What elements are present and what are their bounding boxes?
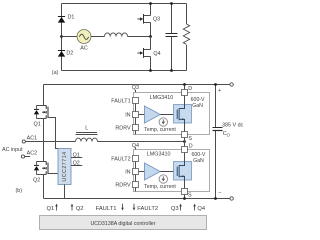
pin RDRV (top block) — [115, 125, 138, 132]
capacitor (a) — [166, 34, 178, 37]
svg-text:AC2: AC2 — [27, 150, 37, 156]
node: + output terminal — [218, 83, 233, 94]
node: AC mid node (a) — [60, 35, 63, 38]
svg-text:D: D — [188, 86, 192, 92]
wire: circuit (a) bottom rail — [62, 70, 187, 72]
inductor (a) — [105, 33, 128, 37]
pin D (top block) — [182, 86, 193, 96]
wire: (b) top rail — [44, 84, 231, 86]
svg-text:Q2: Q2 — [33, 178, 40, 184]
wire: GaN box to S pin — [184, 123, 186, 132]
wire: inductor to switch node (a) — [128, 36, 151, 38]
pin FAULT1 — [111, 98, 138, 105]
wire: AC1 to inductor — [25, 141, 75, 143]
svg-text:IN: IN — [125, 113, 130, 119]
wire: FAULT1 to IN — [135, 104, 137, 112]
diode D2 — [58, 51, 74, 57]
svg-text:Q3: Q3 — [153, 16, 160, 22]
signal FAULT1 to controller — [96, 204, 124, 213]
wire: Q1 gate to driver — [48, 118, 58, 149]
wire: UCC27714 Q1 input stub — [71, 153, 82, 159]
AC source — [77, 30, 91, 52]
node AC1 terminal — [22, 136, 37, 144]
svg-text:Q2: Q2 — [76, 206, 84, 212]
pin RDRV (bottom block) — [115, 182, 138, 189]
pin S (top block) — [182, 132, 193, 142]
node: Q4 source at rail — [149, 69, 152, 72]
node: - output terminal — [218, 190, 233, 200]
svg-text:Q1: Q1 — [47, 206, 55, 212]
svg-text:Q4: Q4 — [197, 206, 206, 212]
wire: UCC27714 bottom to rail — [64, 185, 66, 199]
wire: RDRV to block bottom — [135, 131, 137, 135]
diode D1 — [58, 14, 75, 22]
wire: Q3 source to switch node — [150, 23, 152, 37]
node: Q3 signal label — [132, 85, 139, 97]
svg-text:FAULT1: FAULT1 — [111, 99, 130, 105]
svg-text:UCD3138A digital controller: UCD3138A digital controller — [90, 221, 155, 227]
node: switch node (a) — [149, 35, 152, 38]
svg-text:Q4: Q4 — [153, 51, 160, 57]
svg-text:385 V dc: 385 V dc — [222, 122, 244, 128]
svg-text:UCC27714: UCC27714 — [62, 151, 68, 181]
wire: UCC27714 Q2 input stub — [71, 161, 82, 167]
svg-text:(a): (a) — [52, 70, 59, 76]
block U1: top LMG3410 module — [134, 93, 210, 135]
node: cap top (a) — [170, 2, 173, 5]
svg-text:Q3: Q3 — [171, 206, 179, 212]
node: Q3 drain at rail — [149, 2, 152, 5]
wire: capacitor branch (a) — [171, 4, 173, 71]
svg-text:L: L — [85, 126, 88, 132]
wire: D pin to GaN box — [184, 96, 186, 105]
node AC2 terminal — [21, 150, 37, 158]
svg-text:GaN: GaN — [192, 103, 203, 109]
transistor Q2 with body diode — [33, 162, 48, 184]
svg-text:FAULT2: FAULT2 — [111, 157, 130, 163]
svg-text:AC: AC — [80, 46, 88, 52]
wire: S pin to bottom rail — [184, 195, 186, 199]
wire: IN pin to driver triangle — [139, 114, 145, 116]
wire: Q1 source down through AC1 cross to Q2 drain — [43, 119, 45, 162]
wire: AC source to inductor (a) — [91, 36, 105, 38]
wire: circuit (a) left vertical — [61, 4, 63, 71]
signal FAULT2 to controller — [133, 204, 158, 213]
svg-text:FAULT1: FAULT1 — [96, 206, 117, 212]
wire: (b) bottom rail — [44, 198, 231, 200]
svg-text:Temp, current: Temp, current — [144, 184, 176, 190]
buffer: gate drive triangle (top) — [145, 106, 161, 123]
wire: buffer to GaN gate (bottom) — [160, 171, 177, 173]
wire: AC2 stub — [25, 156, 31, 158]
wire: inductor to GaN switch node — [98, 141, 185, 143]
svg-text:RDRV: RDRV — [115, 126, 131, 132]
signal Q4 to GaN — [193, 204, 206, 213]
svg-text:LMG3410: LMG3410 — [147, 151, 171, 157]
svg-text:Q1: Q1 — [73, 153, 80, 159]
pin IN (top block) — [125, 112, 138, 119]
GaN FET box (top) — [174, 105, 192, 124]
wire: Q2 source to bottom rail — [43, 175, 45, 199]
svg-text:FAULT2: FAULT2 — [137, 206, 158, 212]
svg-text:AC input: AC input — [2, 147, 23, 153]
resistor (load, a) — [183, 24, 189, 44]
svg-text:IN: IN — [125, 170, 130, 176]
svg-text:RDRV: RDRV — [115, 183, 131, 189]
svg-text:GaN: GaN — [193, 158, 204, 164]
GaN FET box (bottom) — [174, 162, 192, 181]
svg-text:AC1: AC1 — [27, 136, 37, 142]
controller UCD3138A — [40, 216, 207, 230]
wire: switch node to Q4 drain — [150, 37, 152, 50]
wire: D pin to GaN box (bottom) — [184, 153, 186, 162]
svg-text:−: − — [218, 190, 221, 196]
wire: resistor branch vertical (a) — [186, 4, 188, 71]
pin D (bottom block) — [182, 143, 193, 152]
signal Q1 to driver — [47, 204, 58, 213]
wire: Q4 source to bottom rail — [150, 57, 152, 71]
buffer: gate drive triangle (bottom) — [145, 163, 161, 180]
signal Q3 to GaN — [171, 204, 182, 213]
wire: IN pin to driver triangle (bottom) — [139, 171, 145, 173]
wire: Q1 drain from top rail — [43, 85, 45, 106]
svg-text:+: + — [218, 88, 221, 94]
capacitor Co — [213, 128, 231, 138]
inductor L — [76, 126, 98, 142]
svg-text:S: S — [188, 136, 192, 142]
svg-text:S: S — [188, 192, 192, 198]
svg-text:Q1: Q1 — [34, 122, 41, 128]
svg-text:D2: D2 — [66, 51, 73, 57]
pin IN (bottom block) — [125, 169, 138, 176]
wire: Q2 gate to driver — [48, 173, 58, 175]
node: S pin at bottom rail — [183, 197, 186, 200]
wire: output cap branch — [215, 85, 217, 199]
gate driver UCC27714 — [58, 149, 71, 185]
wire: node to AC source — [62, 36, 78, 38]
transistor Q1 with body diode — [34, 106, 49, 128]
wire: Q3 drain to top rail — [150, 4, 152, 16]
wire: S pin to switch node — [184, 138, 186, 142]
wire: buffer to GaN gate (top) — [160, 114, 177, 116]
node: cap bottom at rail — [214, 197, 217, 200]
wire: circuit (a) top rail — [62, 3, 187, 5]
signal Q2 to driver — [71, 204, 84, 213]
transistor Q3 — [138, 14, 161, 24]
wire: RDRV to block bottom — [135, 188, 137, 192]
svg-text:(b): (b) — [16, 188, 23, 194]
node: Q4 signal label — [132, 143, 139, 156]
svg-text:Q2: Q2 — [73, 161, 80, 167]
node: GaN switch node — [183, 140, 186, 143]
transistor Q4 — [138, 48, 161, 58]
wire: top rail to D pin — [184, 85, 186, 90]
node: cap top at rail — [214, 83, 217, 86]
node: D pin at top rail — [183, 83, 186, 86]
sensor: temp/current (top) — [144, 118, 176, 133]
pin S (bottom block) — [182, 189, 193, 199]
svg-text:D1: D1 — [68, 14, 75, 20]
wire: switch node to D pin (bottom) — [184, 142, 186, 147]
sensor: temp/current (bottom) — [144, 175, 176, 190]
wire: GaN box to S pin (bottom) — [184, 180, 186, 189]
node: cap bottom (a) — [170, 69, 173, 72]
svg-text:LMG3410: LMG3410 — [150, 95, 174, 101]
wire: IN to RDRV — [135, 118, 137, 125]
wire: IN to RDRV — [135, 175, 137, 182]
svg-text:Temp, current: Temp, current — [144, 127, 176, 133]
svg-text:D: D — [189, 143, 193, 149]
pin FAULT2 — [111, 156, 138, 163]
wire: FAULT2 to IN — [135, 162, 137, 169]
block U2: bottom LMG3410 module — [134, 150, 210, 192]
